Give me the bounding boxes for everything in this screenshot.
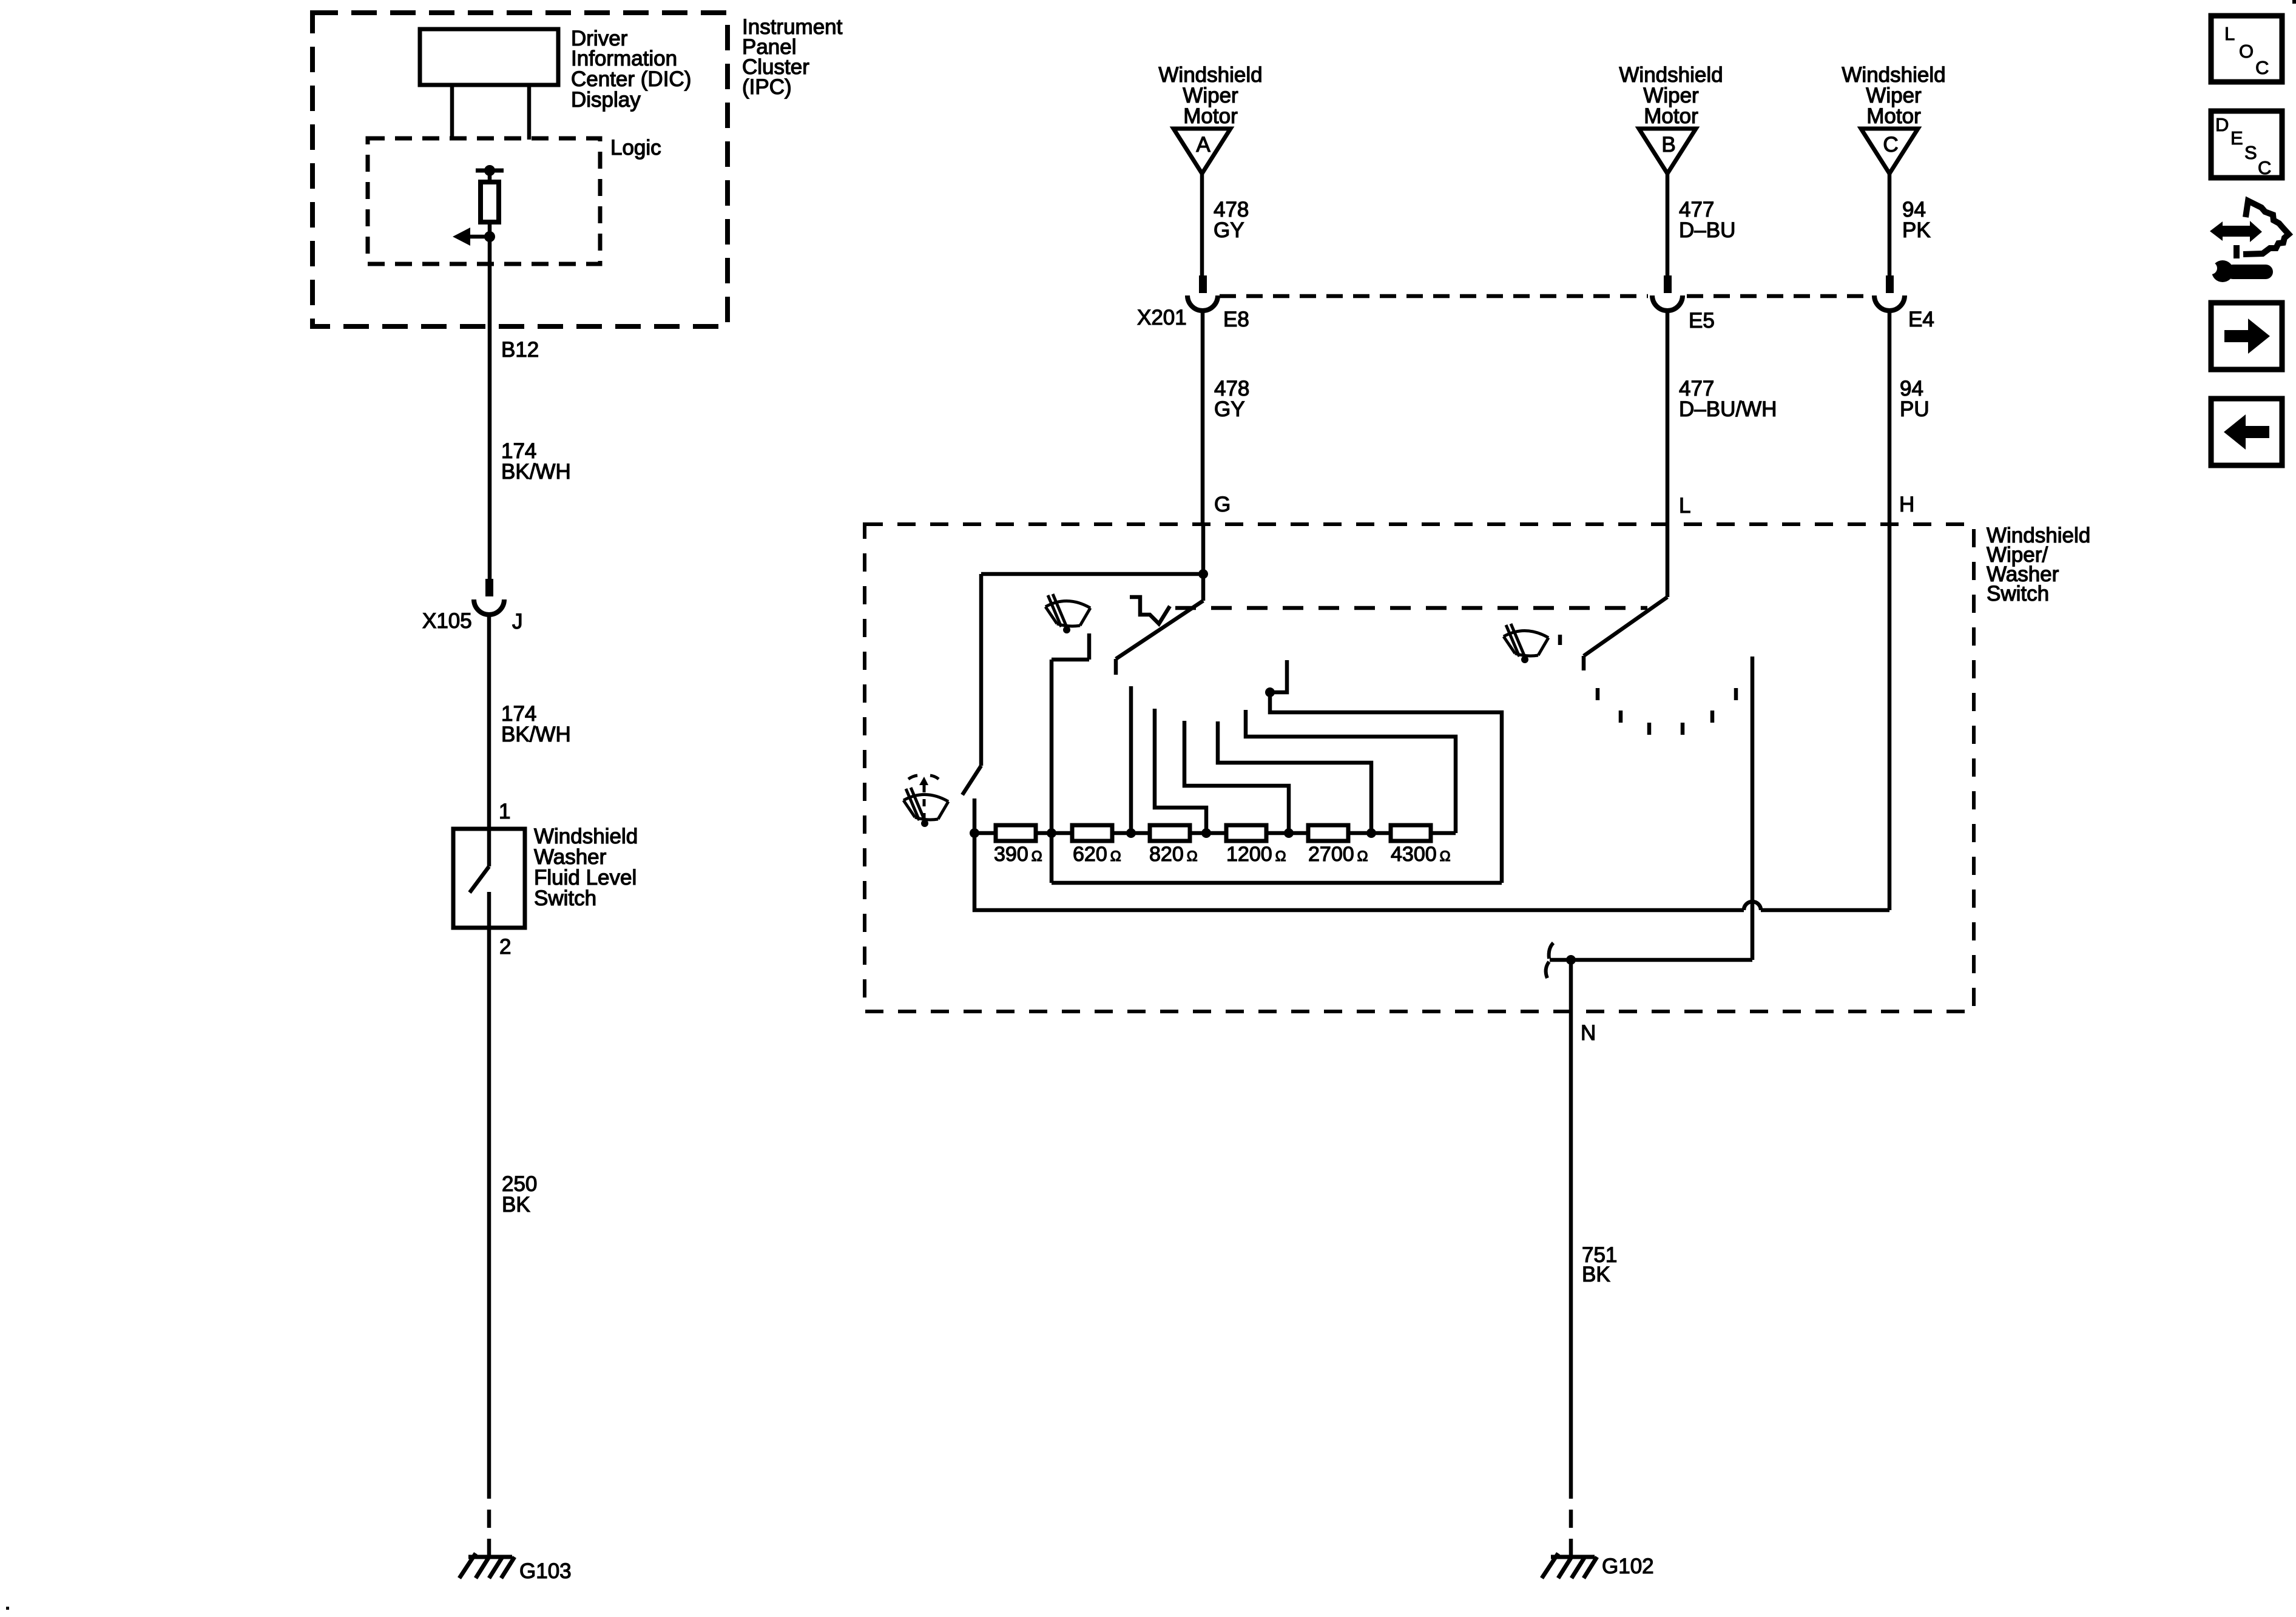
label E4 bbox=[1908, 308, 1934, 331]
wire 94 PU bbox=[1888, 311, 1892, 524]
icon box arrow left bbox=[2211, 399, 2282, 465]
label 620 ohm bbox=[1073, 843, 1121, 866]
wire N horizontal bbox=[1550, 958, 1752, 962]
wiper park symbol bbox=[1130, 597, 1170, 624]
DIC display box bbox=[420, 29, 558, 85]
label E8 bbox=[1223, 308, 1249, 331]
svg-text:D–BU/WH: D–BU/WH bbox=[1679, 397, 1777, 421]
wire 477 D-BU/WH bbox=[1666, 311, 1670, 524]
label B12 bbox=[501, 338, 539, 362]
rotary position ticks bbox=[1598, 688, 1736, 735]
dashed wire to ground G102 bbox=[1569, 1480, 1573, 1557]
windshield wiper/washer switch dashed box bbox=[865, 524, 1974, 1011]
dashed wire to ground G103 bbox=[487, 1480, 491, 1557]
wire motor B to X201 bbox=[1666, 174, 1670, 275]
label 4300 ohm bbox=[1391, 843, 1451, 866]
label: Windshield Washer Fluid Level Switch bbox=[534, 825, 638, 910]
svg-text:J: J bbox=[512, 610, 523, 633]
delay contact 3 bbox=[1184, 721, 1294, 838]
rotary switch arm (L) bbox=[1584, 597, 1667, 670]
wire 478 GY (lower) bbox=[1201, 311, 1205, 524]
node ladder tap 620 bbox=[1047, 828, 1056, 838]
svg-text:L: L bbox=[2224, 23, 2235, 44]
page corner mark bottom left bbox=[6, 1607, 9, 1610]
svg-text:S: S bbox=[2244, 142, 2257, 163]
svg-text:Logic: Logic bbox=[610, 136, 661, 160]
motor C triangle bbox=[1861, 129, 1918, 174]
label pin 2 bbox=[499, 935, 511, 959]
svg-text:C: C bbox=[2258, 157, 2271, 178]
wire B12 out of IPC bbox=[488, 237, 492, 579]
label: Windshield Wiper Motor (A) bbox=[1158, 63, 1262, 128]
label 2700 ohm bbox=[1308, 843, 1368, 866]
diagnostic icon (arrow, outline, wrench) bbox=[2205, 201, 2289, 282]
svg-text:2: 2 bbox=[499, 935, 511, 959]
svg-text:G102: G102 bbox=[1602, 1555, 1654, 1578]
resistor 620 ohm bbox=[1072, 825, 1112, 841]
mechanical link dashed line bbox=[1175, 606, 1647, 610]
dashed connector line X201 bbox=[1220, 294, 1872, 299]
svg-text:D: D bbox=[2215, 114, 2229, 135]
connector X105 (pin and cup) bbox=[474, 579, 504, 615]
washer fluid level switch contacts bbox=[470, 829, 489, 928]
wire DIC right pin to Logic box bbox=[527, 85, 532, 140]
label 94 PU bbox=[1900, 377, 1930, 421]
icon box arrow right bbox=[2211, 303, 2282, 370]
resistor 1200 ohm bbox=[1226, 825, 1266, 841]
icon box DESC bbox=[2211, 111, 2282, 178]
delay contact 5 bbox=[1246, 710, 1456, 833]
wire motor A to X201 bbox=[1200, 174, 1204, 275]
label 478 GY (upper) bbox=[1214, 198, 1249, 242]
label N bbox=[1581, 1021, 1596, 1045]
resistor 390 ohm bbox=[996, 825, 1036, 841]
splice terminal symbol bbox=[1546, 943, 1553, 978]
rotary switch arm (G) bbox=[1116, 574, 1203, 675]
label 820 ohm bbox=[1149, 843, 1198, 866]
label G pin bbox=[1214, 493, 1231, 516]
svg-text:D–BU: D–BU bbox=[1679, 218, 1735, 242]
label: Windshield Wiper/ Washer Switch bbox=[1987, 524, 2090, 606]
svg-text:E8: E8 bbox=[1223, 308, 1249, 331]
label 94 PK bbox=[1902, 198, 1931, 242]
svg-text:(IPC): (IPC) bbox=[742, 75, 792, 99]
label 174 BK/WH (lower) bbox=[501, 702, 571, 746]
svg-text:B12: B12 bbox=[501, 338, 539, 362]
wire L inside box bbox=[1666, 524, 1670, 597]
Logic dashed box bbox=[368, 138, 600, 264]
svg-text:1: 1 bbox=[499, 800, 510, 823]
connector X201 pin E5 bbox=[1652, 275, 1683, 311]
delay contact 2 bbox=[1155, 709, 1211, 838]
wire top horizontal to wash branch bbox=[981, 572, 1203, 576]
svg-text:C: C bbox=[2255, 57, 2269, 78]
label: Driver Information Center (DIC) Display bbox=[571, 27, 691, 112]
svg-text:N: N bbox=[1581, 1021, 1596, 1045]
svg-text:G: G bbox=[1214, 493, 1231, 516]
main return wire with hop bbox=[974, 833, 1889, 910]
svg-text:C: C bbox=[1883, 133, 1898, 157]
label X201 bbox=[1137, 306, 1187, 329]
svg-text:BK: BK bbox=[1582, 1263, 1610, 1286]
resistor ladder wire bbox=[974, 831, 1456, 836]
wiper arrow of sensor bbox=[453, 228, 495, 246]
svg-text:L: L bbox=[1679, 494, 1690, 518]
svg-text:BK/WH: BK/WH bbox=[501, 723, 571, 746]
svg-text:PU: PU bbox=[1900, 397, 1930, 421]
label: Windshield Wiper Motor (B) bbox=[1619, 63, 1723, 128]
svg-text:BK: BK bbox=[502, 1193, 530, 1217]
delay contact 4 bbox=[1218, 721, 1376, 838]
off contact elbow bbox=[1265, 660, 1502, 883]
label H pin bbox=[1899, 493, 1914, 516]
node N junction bbox=[1566, 955, 1576, 965]
svg-text:GY: GY bbox=[1214, 397, 1245, 421]
label 477 D-BU/WH bbox=[1679, 377, 1777, 421]
wire 250 BK bbox=[487, 928, 491, 1480]
svg-text:GY: GY bbox=[1214, 218, 1244, 242]
motor A triangle bbox=[1173, 129, 1231, 174]
wire N down to ground bbox=[1569, 960, 1573, 1480]
windshield washer fluid level switch box bbox=[453, 829, 525, 928]
wire H inside box bbox=[1888, 524, 1892, 910]
wire low contact to ladder tap bbox=[1050, 660, 1054, 883]
svg-text:H: H bbox=[1899, 493, 1914, 516]
resistor 820 ohm bbox=[1150, 825, 1190, 841]
svg-text:PK: PK bbox=[1902, 218, 1931, 242]
svg-text:Motor: Motor bbox=[1644, 104, 1698, 128]
svg-text:E4: E4 bbox=[1908, 308, 1934, 331]
label G103 bbox=[519, 1559, 572, 1583]
resistor 2700 ohm bbox=[1308, 825, 1348, 841]
svg-text:O: O bbox=[2239, 41, 2254, 62]
tick by wiper icon bbox=[1558, 635, 1562, 645]
wash switch blade bbox=[962, 766, 981, 795]
wire G inside box bbox=[1201, 524, 1206, 574]
label pin 1 bbox=[499, 800, 510, 823]
delay contact 1 bbox=[1126, 686, 1136, 838]
washer icon (dashed wiper with spray) bbox=[903, 775, 948, 827]
svg-text:E5: E5 bbox=[1689, 309, 1715, 333]
wiper icon (high) bbox=[1504, 624, 1548, 663]
label: Instrument Panel Cluster (IPC) bbox=[742, 15, 843, 99]
page corner mark top right bbox=[2292, 0, 2296, 4]
ladder return loop bbox=[1052, 881, 1502, 885]
low speed contact elbow bbox=[1052, 633, 1089, 660]
connector X201 pin E4 bbox=[1874, 275, 1905, 311]
label 1200 ohm bbox=[1226, 843, 1286, 866]
label 478 GY (lower) bbox=[1214, 377, 1249, 421]
svg-text:BK/WH: BK/WH bbox=[501, 460, 571, 484]
label E5 bbox=[1689, 309, 1715, 333]
ground G103 bbox=[459, 1553, 515, 1578]
node G junction bbox=[1198, 569, 1208, 579]
svg-text:A: A bbox=[1196, 133, 1210, 157]
label X105 bbox=[422, 609, 472, 633]
svg-text:B: B bbox=[1661, 133, 1675, 157]
svg-text:Motor: Motor bbox=[1183, 104, 1238, 128]
wiper icon (low) bbox=[1045, 594, 1090, 633]
IPC dashed box (Instrument Panel Cluster) bbox=[312, 13, 728, 326]
label: Logic bbox=[610, 136, 661, 160]
svg-text:X105: X105 bbox=[422, 609, 472, 633]
label: Windshield Wiper Motor (C) bbox=[1842, 63, 1945, 128]
svg-text:E: E bbox=[2230, 127, 2243, 149]
wire DIC left pin to Logic box bbox=[450, 85, 454, 140]
wire motor C to X201 bbox=[1888, 174, 1892, 275]
label L pin bbox=[1679, 494, 1690, 518]
high speed contact wire to N bbox=[1751, 657, 1755, 960]
wire wash branch vertical bbox=[979, 574, 984, 766]
svg-text:G103: G103 bbox=[519, 1559, 572, 1583]
wire 174 BK/WH (lower) bbox=[487, 615, 491, 829]
label 174 BK/WH (upper) bbox=[501, 439, 571, 484]
label 390 ohm bbox=[994, 843, 1042, 866]
label 751 BK bbox=[1582, 1243, 1617, 1286]
resistor 4300 ohm bbox=[1391, 825, 1431, 841]
svg-text:Switch: Switch bbox=[534, 886, 596, 910]
svg-text:Motor: Motor bbox=[1866, 104, 1921, 128]
wash switch contact stub bbox=[973, 798, 977, 833]
sensor resistor (DIC fluid level sense) bbox=[476, 165, 504, 236]
label 477 D-BU bbox=[1679, 198, 1735, 242]
label G102 bbox=[1602, 1555, 1654, 1578]
label 250 BK bbox=[502, 1172, 537, 1217]
svg-text:Display: Display bbox=[571, 88, 641, 112]
motor B triangle bbox=[1639, 129, 1696, 174]
connector X201 pin E8 bbox=[1187, 275, 1218, 311]
node ladder left end bbox=[970, 828, 979, 838]
ground G102 bbox=[1542, 1553, 1597, 1578]
label J bbox=[512, 610, 523, 633]
icon box LOC bbox=[2211, 16, 2282, 82]
svg-text:Switch: Switch bbox=[1987, 582, 2049, 606]
svg-text:X201: X201 bbox=[1137, 306, 1187, 329]
